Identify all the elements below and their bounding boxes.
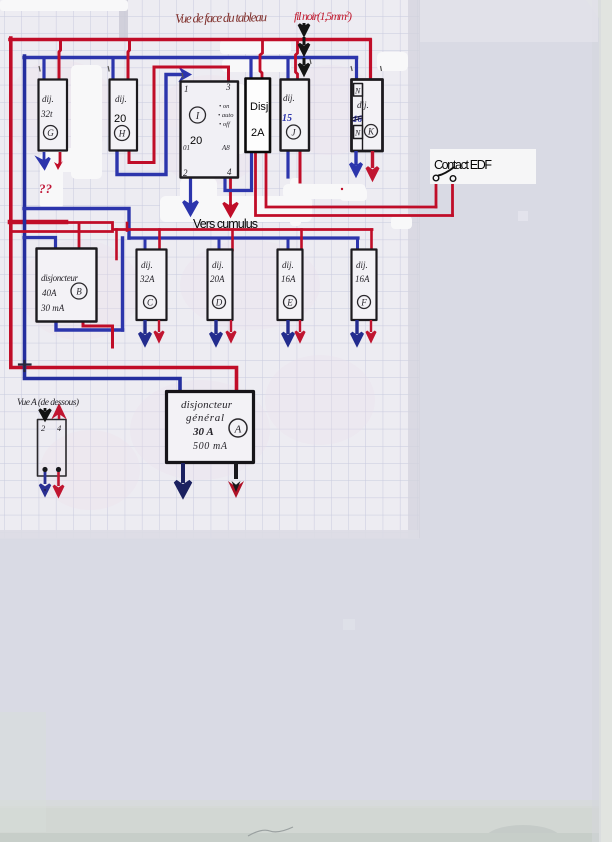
wire blue I pin2 to vers cumulus xyxy=(189,153,192,205)
wire blue drop to K xyxy=(355,58,358,79)
wire blue branch to B top xyxy=(24,238,56,249)
wire red bus from outer vertical y231 xyxy=(12,230,113,233)
svg-text:B: B xyxy=(76,287,82,297)
svg-text:1: 1 xyxy=(184,84,189,94)
designator B xyxy=(71,283,87,299)
arrow blue below E xyxy=(283,320,294,344)
svg-text:16A: 16A xyxy=(281,274,296,284)
wire red drop to H xyxy=(128,41,130,79)
main breaker A box xyxy=(167,392,254,463)
arrow blue below D xyxy=(211,320,222,344)
wire red B bottom out xyxy=(83,322,113,347)
wire red outer left vertical xyxy=(11,38,237,391)
designator J xyxy=(287,125,301,139)
svg-text:30 mA: 30 mA xyxy=(40,303,65,313)
wire red drop to E xyxy=(300,230,303,251)
tick above K pins xyxy=(351,66,382,71)
breaker K box xyxy=(352,80,383,152)
contact EDF white label box xyxy=(430,149,536,184)
svg-text:• on: • on xyxy=(219,103,229,110)
arrow red below terminal box xyxy=(54,472,64,496)
wire red drop to J xyxy=(296,41,298,79)
wire red middle feed y222-231 xyxy=(66,223,372,230)
svg-text:dij.: dij. xyxy=(282,260,294,270)
whiteout below box I / vers cumulus xyxy=(180,178,217,217)
svg-text:G: G xyxy=(47,128,54,138)
wire blue connector B bottom to bus xyxy=(121,238,124,330)
terminal dot right xyxy=(56,467,61,472)
node blue-red crossing tick bottom left xyxy=(19,361,31,371)
svg-text:dij.: dij. xyxy=(212,260,224,270)
svg-text:• auto: • auto xyxy=(218,112,234,119)
small light square right area xyxy=(518,211,528,221)
svg-text:20: 20 xyxy=(190,135,202,147)
tick above H pin xyxy=(108,66,109,72)
wire red H-bottom to I pin3 xyxy=(129,67,229,163)
svg-text:Disj: Disj xyxy=(250,101,268,113)
whiteout below J K xyxy=(283,184,366,199)
whiteout between G and H xyxy=(71,65,102,179)
svg-text:32t: 32t xyxy=(40,109,53,119)
paper right edge shadow xyxy=(408,0,420,538)
wire red drop to B xyxy=(78,223,81,248)
svg-text:dij.: dij. xyxy=(357,100,369,110)
scan right edge light margin xyxy=(599,0,612,842)
svg-text:dij.: dij. xyxy=(115,94,127,104)
svg-text:E: E xyxy=(286,298,293,308)
arrow black-red below A xyxy=(234,463,238,479)
whiteout near paper right edge xyxy=(391,216,412,229)
whiteout top left xyxy=(0,0,128,11)
tick above J pin xyxy=(310,59,311,64)
wire red top bus xyxy=(10,38,370,42)
breaker H box xyxy=(110,80,138,151)
whiteout left of Disj2A xyxy=(232,84,245,154)
svg-text:2A: 2A xyxy=(251,127,265,139)
tick above G pin xyxy=(39,66,40,72)
svg-text:Contact EDF: Contact EDF xyxy=(434,158,492,172)
arrow black into terminal box xyxy=(40,408,51,420)
arrow blue into pin1 xyxy=(181,70,190,80)
svg-text:N: N xyxy=(354,87,361,96)
svg-text:3: 3 xyxy=(225,82,231,92)
svg-text:??: ?? xyxy=(39,181,53,196)
whiteout above Disj2A xyxy=(220,40,291,54)
contact EDF switch pole circle xyxy=(433,175,439,181)
designator C xyxy=(144,296,157,309)
scratch mark bottom xyxy=(248,827,293,836)
wire blue drop to E xyxy=(287,238,290,250)
svg-text:K: K xyxy=(367,127,375,137)
paper pink mottling xyxy=(5,60,380,510)
svg-text:fil noir(1,5mm²): fil noir(1,5mm²) xyxy=(294,9,352,23)
svg-text:N: N xyxy=(354,129,361,138)
svg-text:• off: • off xyxy=(219,121,231,128)
svg-text:dij.: dij. xyxy=(356,260,368,270)
designator K xyxy=(365,125,378,138)
wire blue drop to C xyxy=(144,238,147,250)
arrow red below G xyxy=(57,152,60,166)
svg-text:I: I xyxy=(195,111,200,122)
wire blue drop to H xyxy=(111,58,114,79)
arrow blue below G xyxy=(39,152,50,168)
differential B box xyxy=(37,249,97,322)
wire red A8 to vers cumulus xyxy=(226,155,231,206)
svg-text:16A: 16A xyxy=(355,274,370,284)
svg-text:général: général xyxy=(186,412,224,424)
wire red Disj2A to contact EDF lower xyxy=(256,152,453,216)
scan bottom band xyxy=(0,806,612,842)
svg-text:A: A xyxy=(234,424,242,436)
wire red thick stub middle left xyxy=(10,220,66,225)
wire red contact EDF risers xyxy=(436,181,453,216)
wire red stub x116 xyxy=(115,230,118,260)
arrow fil noir chevron 2 xyxy=(299,37,309,54)
contactor I box xyxy=(181,82,239,178)
breaker Disj2A box xyxy=(246,79,271,153)
svg-text:disjoncteur: disjoncteur xyxy=(181,399,233,411)
wire blue drop to Disj2A xyxy=(249,59,252,79)
svg-text:dij.: dij. xyxy=(283,93,295,103)
terminal box view A xyxy=(38,420,67,477)
svg-text:20A: 20A xyxy=(210,274,225,284)
node red tick x127 xyxy=(126,223,129,231)
wire blue outer left vertical xyxy=(25,56,181,391)
whiteout below G xyxy=(40,152,63,210)
breaker C box xyxy=(137,250,167,321)
wire red stub below J xyxy=(299,151,302,182)
arrow red vers cumulus xyxy=(224,203,238,216)
gray streak top xyxy=(119,0,128,40)
designator H xyxy=(115,126,130,141)
svg-text:2: 2 xyxy=(183,168,188,178)
svg-text:15: 15 xyxy=(282,113,292,124)
arrow blue below C xyxy=(140,320,151,344)
arrow blue below F xyxy=(352,320,363,344)
wire red drop to F xyxy=(370,230,373,251)
svg-text:Vers cumulus: Vers cumulus xyxy=(193,217,258,231)
breaker D box xyxy=(208,250,233,321)
wire blue B bottom out xyxy=(56,322,123,330)
wire blue drop to G xyxy=(42,58,45,79)
svg-text:F: F xyxy=(360,298,367,308)
wire blue mid-left horizontal y208 xyxy=(24,209,129,239)
arrow red below C xyxy=(155,320,164,341)
svg-text:H: H xyxy=(118,129,126,139)
wire blue drop to D xyxy=(218,238,221,250)
svg-text:40A: 40A xyxy=(42,288,57,298)
wire blue middle bus y239 xyxy=(129,236,358,239)
svg-text:disjoncteur: disjoncteur xyxy=(41,273,78,283)
tick above I pin1 xyxy=(182,73,183,78)
arrow red below K xyxy=(367,151,378,179)
svg-text:30 A: 30 A xyxy=(192,426,214,438)
wire blue top bus xyxy=(24,56,357,59)
designator A xyxy=(229,419,247,437)
designator I xyxy=(190,107,206,123)
paper bottom edge shadow xyxy=(0,530,419,539)
svg-text:500 mA: 500 mA xyxy=(193,441,228,452)
wire red Disj2A to contact EDF upper xyxy=(266,152,436,207)
whiteout right of K xyxy=(377,52,408,71)
breaker K inner N box bottom xyxy=(354,126,363,139)
designator G xyxy=(44,126,58,140)
svg-text:D: D xyxy=(215,298,223,308)
designator E xyxy=(284,296,297,309)
svg-text:Vue A (de dessous): Vue A (de dessous) xyxy=(17,397,79,408)
breaker K partition xyxy=(362,96,364,150)
arrow blue below K xyxy=(351,151,362,175)
breaker G box xyxy=(39,80,68,151)
wire blue drop to F xyxy=(356,238,359,250)
svg-text:20: 20 xyxy=(114,113,126,125)
svg-text:C: C xyxy=(147,298,154,308)
wire red drop to K xyxy=(369,40,372,79)
contact EDF switch lever xyxy=(439,168,454,176)
wire blue Disj2A bottom to I pin4 xyxy=(225,152,252,191)
arrow blue vers cumulus xyxy=(184,200,198,214)
arrow red below F xyxy=(367,320,376,341)
arrow red below D xyxy=(227,320,236,341)
designator D xyxy=(213,296,226,309)
svg-text:32A: 32A xyxy=(139,274,155,284)
arrow fil noir chevron 3 xyxy=(299,58,309,74)
terminal dot left xyxy=(42,467,47,472)
contact EDF switch throw circle xyxy=(450,176,456,182)
wire red drop to D xyxy=(231,230,234,251)
designator F xyxy=(358,296,371,309)
wire red drop to G xyxy=(59,41,61,79)
arrow navy below A xyxy=(176,463,191,496)
arrow fil noir chevron 1 xyxy=(299,23,309,35)
wire blue stub below J xyxy=(286,151,289,177)
svg-text:A8: A8 xyxy=(221,144,230,152)
svg-text:dij.: dij. xyxy=(42,94,54,104)
wire blue drop to J xyxy=(286,58,289,79)
arrow red below E xyxy=(296,320,305,341)
breaker J box xyxy=(281,80,310,151)
arrow red up from terminal box xyxy=(55,406,64,419)
breaker F box xyxy=(352,250,377,321)
svg-text:dij.: dij. xyxy=(141,260,153,270)
svg-text:Vue de face du tableau: Vue de face du tableau xyxy=(175,9,268,26)
arrow blue below terminal box xyxy=(40,472,50,495)
scan top right light xyxy=(420,0,598,42)
wire red drop to Disj2A xyxy=(260,41,263,79)
red speck left of K bottom xyxy=(341,188,343,190)
svg-text:01: 01 xyxy=(183,144,190,152)
svg-text:4: 4 xyxy=(227,167,232,177)
wire blue H-bottom to I pin1 xyxy=(117,75,184,175)
breaker K inner N box top xyxy=(354,84,363,97)
graph paper sheet xyxy=(0,0,419,538)
wire red drop to C xyxy=(158,230,161,251)
breaker E box xyxy=(278,250,303,321)
